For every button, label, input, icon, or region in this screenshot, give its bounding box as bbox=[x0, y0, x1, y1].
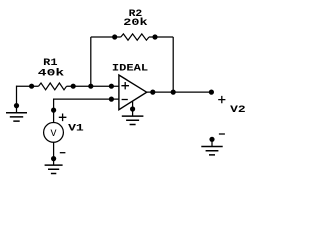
junction dot: V2 ground pin bbox=[209, 137, 214, 142]
junction dot: op-amp ground pin bbox=[130, 106, 135, 111]
resistor R2 zigzag bbox=[121, 34, 149, 40]
wire: V1 ground stub bbox=[53, 159, 55, 166]
wire: R2 row left segment bbox=[91, 36, 121, 38]
wire: R2 row right segment bbox=[149, 36, 173, 38]
svg-text:20k: 20k bbox=[123, 17, 147, 29]
junction dot: R2 left pin bbox=[112, 34, 117, 39]
ground (V1 negative terminal) bbox=[45, 165, 63, 173]
wire: inverting input row from V1 bbox=[54, 98, 119, 100]
ground (V2 negative terminal) bbox=[201, 147, 222, 155]
V2 polarity minus mark bbox=[219, 133, 225, 135]
svg-text:V1: V1 bbox=[68, 123, 84, 134]
junction dot: R1 right pin bbox=[71, 84, 76, 89]
junction dot: R2 right pin bbox=[152, 34, 157, 39]
wire: left ground stub bbox=[16, 106, 18, 113]
junction dot: V2 positive terminal bbox=[209, 90, 214, 95]
ground (left, at R1 input node) bbox=[6, 113, 27, 121]
V2 polarity plus mark bbox=[218, 96, 225, 103]
junction dot: R1 left pin bbox=[29, 84, 34, 89]
V1 polarity minus mark bbox=[60, 152, 66, 154]
source V1 circle bbox=[44, 122, 64, 142]
junction dot: left ground pin bbox=[14, 103, 19, 108]
svg-text:IDEAL: IDEAL bbox=[112, 63, 148, 74]
svg-text:V2: V2 bbox=[230, 105, 246, 116]
junction dot: V1 positive pin bbox=[51, 108, 56, 113]
op-amp U1 triangle bbox=[119, 75, 147, 110]
junction dot: op-amp inverting input pin bbox=[109, 97, 114, 102]
op-amp inverting input minus mark bbox=[122, 99, 128, 101]
resistor R1 zigzag bbox=[39, 83, 67, 90]
wire: R2 left leg (node A up to feedback row) bbox=[90, 37, 92, 86]
op-amp noninverting input plus mark bbox=[121, 82, 129, 89]
wire: V1 top riser bbox=[53, 99, 55, 123]
wire: left ground drop bbox=[16, 86, 18, 106]
wire: R1 to op-amp noninverting input bbox=[67, 85, 119, 87]
wire: V2 ground stub bbox=[211, 139, 213, 146]
junction dot: output/feedback junction bbox=[171, 90, 176, 95]
wire: R1 row left segment (ground node to R1) bbox=[16, 85, 38, 87]
junction dot: op-amp output pin bbox=[150, 90, 155, 95]
svg-text:40k: 40k bbox=[38, 68, 64, 80]
junction dot: V1 negative pin bbox=[51, 156, 56, 161]
ground (op-amp reference) bbox=[122, 116, 144, 124]
wire: output row to V2 terminal bbox=[147, 91, 212, 93]
junction dot: node A (R1/R2 junction) bbox=[88, 84, 93, 89]
wire: op-amp ground stub bbox=[132, 101, 134, 116]
V1 polarity plus mark bbox=[59, 114, 67, 122]
junction dot: op-amp noninverting input pin bbox=[109, 84, 114, 89]
svg-text:V: V bbox=[50, 129, 56, 140]
svg-text:R1: R1 bbox=[43, 58, 57, 69]
wire: R2 right leg down to output node bbox=[172, 37, 174, 92]
wire: V1 bottom lead bbox=[53, 142, 55, 158]
